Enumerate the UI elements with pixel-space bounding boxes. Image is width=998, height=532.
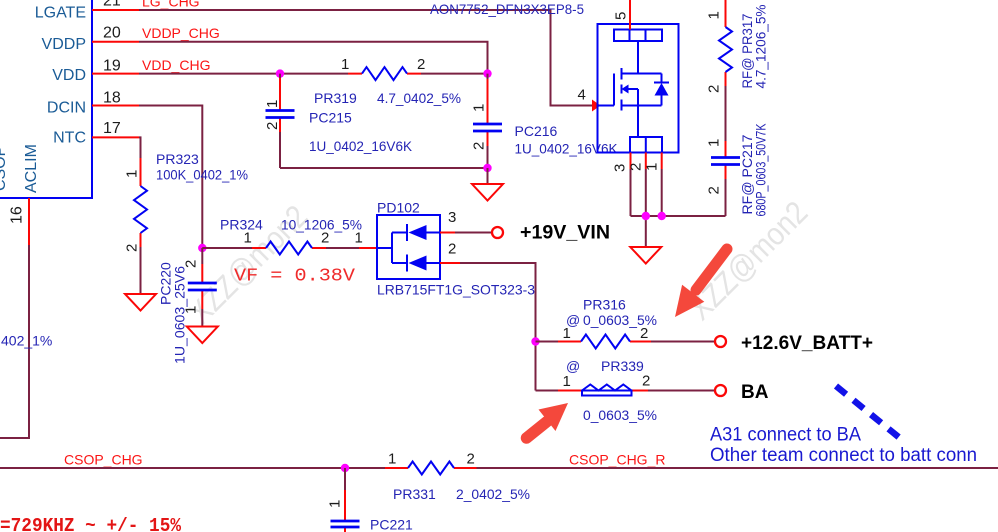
resistor PR323 100K_0402_1% bbox=[124, 137, 249, 252]
wire PR316 to +12.6V_BATT+ port bbox=[651, 341, 715, 343]
svg-text:1: 1 bbox=[264, 100, 281, 108]
svg-text:2: 2 bbox=[642, 373, 650, 390]
svg-text:2: 2 bbox=[448, 241, 456, 258]
svg-text:PR324: PR324 bbox=[220, 217, 263, 233]
svg-text:1: 1 bbox=[706, 11, 723, 19]
svg-text:PC221: PC221 bbox=[370, 517, 413, 532]
svg-text:20: 20 bbox=[103, 25, 121, 42]
svg-text:1: 1 bbox=[388, 451, 396, 468]
svg-text:2: 2 bbox=[471, 142, 488, 150]
svg-text:2: 2 bbox=[467, 451, 475, 468]
svg-text:DCIN: DCIN bbox=[47, 100, 86, 117]
svg-text:2_0402_5%: 2_0402_5% bbox=[456, 486, 530, 502]
wire PR323 to ground bbox=[140, 247, 142, 294]
svg-text:LGATE: LGATE bbox=[35, 5, 86, 22]
junction node PR316/PR339 bbox=[531, 337, 539, 345]
svg-text:1U_0402_16V6K: 1U_0402_16V6K bbox=[309, 138, 413, 154]
diode PD102 LRB715FT1G_SOT323-3 bbox=[355, 200, 536, 298]
port +19V_VIN bbox=[492, 223, 610, 244]
svg-text:402_1%: 402_1% bbox=[1, 333, 52, 349]
wire PC217 down to node bbox=[725, 179, 727, 216]
wire CSOP_CHG_R bbox=[477, 467, 998, 469]
svg-text:100K_0402_1%: 100K_0402_1% bbox=[156, 167, 248, 183]
IC charger body (partial, left edge) bbox=[0, 0, 92, 198]
junction node VDD/PC215 bbox=[276, 69, 284, 77]
svg-text:BA: BA bbox=[741, 382, 769, 403]
svg-text:680P_0603_50V7K: 680P_0603_50V7K bbox=[753, 123, 769, 217]
junction CSOP/PC221 bbox=[341, 464, 349, 472]
wire VDDP_CHG pin20 down to VDD node bbox=[139, 42, 488, 74]
pin 16 ACLIM bbox=[9, 144, 41, 245]
svg-text:PR316: PR316 bbox=[583, 297, 626, 313]
capacitor PC215 1U_0402_16V6K bbox=[264, 74, 413, 168]
resistor PR319 4.7_0402_5% bbox=[314, 56, 461, 106]
capacitor PC216 1U_0402_16V6K bbox=[471, 74, 619, 168]
svg-text:4: 4 bbox=[578, 87, 586, 104]
svg-text:PC216: PC216 bbox=[515, 123, 558, 139]
pin 20 VDDP bbox=[42, 25, 139, 54]
wire ground rail PC215/PC216 bbox=[280, 167, 488, 169]
svg-text:+12.6V_BATT+: +12.6V_BATT+ bbox=[741, 333, 873, 354]
svg-text:=729KHZ ~ +/- 15%: =729KHZ ~ +/- 15% bbox=[0, 515, 182, 532]
port BA bbox=[715, 382, 769, 403]
svg-text:AON7752_DFN3X3EP8-5: AON7752_DFN3X3EP8-5 bbox=[430, 1, 584, 17]
svg-text:PR319: PR319 bbox=[314, 90, 357, 106]
svg-text:4.7_0402_5%: 4.7_0402_5% bbox=[377, 90, 461, 106]
port +12.6V_BATT+ bbox=[715, 333, 873, 354]
svg-text:PR339: PR339 bbox=[601, 358, 644, 374]
svg-text:1: 1 bbox=[341, 56, 349, 73]
svg-text:LG_CHG: LG_CHG bbox=[142, 0, 200, 9]
svg-text:4.7_1206_5%: 4.7_1206_5% bbox=[753, 5, 769, 89]
resistor PR317 RF@ 4.7_1206_5% bbox=[706, 0, 769, 93]
ground under Q1 bbox=[630, 247, 661, 264]
svg-text:1: 1 bbox=[124, 170, 141, 178]
svg-text:19: 19 bbox=[103, 58, 121, 75]
wire VDD_CHG pin19 to PR319 bbox=[139, 73, 348, 75]
wire CSOP_CHG bbox=[0, 467, 385, 469]
wire ACLIM pin16 down and left bbox=[0, 245, 29, 438]
svg-text:ACLIM: ACLIM bbox=[23, 144, 40, 193]
svg-text:1: 1 bbox=[355, 230, 363, 247]
transistor Q1 AON7752_DFN3X3EP8-5 bbox=[430, 0, 679, 172]
svg-text:@: @ bbox=[566, 358, 580, 374]
resistor PR316 0_0603_5% bbox=[558, 297, 657, 349]
red arrow pointing to PR316 bbox=[675, 249, 727, 317]
svg-text:VDD: VDD bbox=[52, 67, 86, 84]
svg-text:3: 3 bbox=[448, 209, 456, 226]
svg-text:1: 1 bbox=[471, 104, 488, 112]
svg-text:@: @ bbox=[566, 312, 580, 328]
svg-text:+19V_VIN: +19V_VIN bbox=[520, 223, 610, 244]
pin 19 VDD bbox=[52, 58, 139, 85]
svg-text:2: 2 bbox=[124, 244, 141, 252]
capacitor PC221 bbox=[327, 468, 414, 532]
svg-text:VDD_CHG: VDD_CHG bbox=[142, 57, 210, 73]
svg-text:18: 18 bbox=[103, 90, 121, 107]
red arrow pointing to PR339 bbox=[527, 403, 569, 438]
svg-text:NTC: NTC bbox=[53, 130, 86, 147]
junction Q1 pin2 node bbox=[642, 212, 650, 220]
junction Q1 pin1 node bbox=[658, 212, 666, 220]
svg-text:17: 17 bbox=[103, 120, 121, 137]
svg-text:CSOP_CHG_R: CSOP_CHG_R bbox=[569, 451, 665, 467]
wire node to PR324 bbox=[202, 247, 252, 249]
wire PD102 pin2 down to battery branch bbox=[440, 263, 536, 391]
svg-text:PR331: PR331 bbox=[393, 486, 436, 502]
wire PR324 to PD102 bbox=[326, 247, 359, 249]
svg-text:1U_0603_25V6: 1U_0603_25V6 bbox=[172, 266, 188, 364]
svg-text:2: 2 bbox=[706, 186, 723, 194]
svg-text:Other team connect to batt con: Other team connect to batt conn bbox=[710, 445, 977, 466]
svg-text:PR323: PR323 bbox=[156, 151, 199, 167]
wire node to PR316 bbox=[536, 341, 559, 343]
ground under PC215/PC216 rail bbox=[472, 168, 503, 201]
pin 21 LGATE bbox=[35, 0, 139, 22]
svg-text:10_1206_5%: 10_1206_5% bbox=[281, 217, 362, 233]
svg-text:VDDP: VDDP bbox=[42, 36, 86, 53]
svg-text:PD102: PD102 bbox=[377, 200, 420, 216]
svg-text:A31 connect to BA: A31 connect to BA bbox=[710, 425, 861, 446]
svg-text:0_0603_5%: 0_0603_5% bbox=[583, 407, 657, 423]
capacitor PC220 1U_0603_25V6 bbox=[158, 248, 217, 364]
capacitor PC217 RF@ 680P_0603_50V7K bbox=[706, 123, 769, 217]
svg-text:1: 1 bbox=[327, 500, 344, 508]
svg-text:21: 21 bbox=[103, 0, 121, 10]
resistor PR324 10_1206_5% bbox=[220, 217, 362, 255]
svg-text:PC215: PC215 bbox=[309, 110, 352, 126]
svg-text:CSOP: CSOP bbox=[0, 146, 9, 191]
wire Q1 pins 1/2/3 to node bbox=[631, 169, 726, 247]
svg-text:1: 1 bbox=[563, 373, 571, 390]
wire PR317 to PC217 bbox=[725, 86, 727, 141]
svg-text:16: 16 bbox=[9, 206, 26, 224]
blue dashed pointer line bbox=[836, 386, 901, 439]
svg-text:VDDP_CHG: VDDP_CHG bbox=[142, 25, 220, 41]
wire DCIN pin18 down to node bbox=[139, 106, 202, 249]
resistor PR331 2_0402_5% bbox=[385, 451, 530, 503]
pin 17 NTC bbox=[53, 120, 139, 147]
wire PD102 pin3 to +19V_VIN port bbox=[440, 232, 492, 234]
ground under PC220 bbox=[187, 327, 218, 344]
svg-text:CSOP_CHG: CSOP_CHG bbox=[64, 451, 143, 467]
wire node to PR339 bbox=[536, 390, 559, 392]
junction node VDD/PC216 bbox=[483, 69, 491, 77]
svg-text:1U_0402_16V6K: 1U_0402_16V6K bbox=[515, 141, 619, 157]
junction rail/ground bbox=[483, 164, 491, 172]
resistor PR339 0_0603_5% (boxed zigzag) bbox=[558, 358, 657, 423]
svg-text:2: 2 bbox=[706, 85, 723, 93]
pin 18 DCIN bbox=[47, 90, 139, 117]
wire LG_CHG pin21 to Q1 gate bbox=[139, 10, 592, 106]
wire PR339 to BA port bbox=[648, 390, 715, 392]
svg-text:2: 2 bbox=[264, 122, 281, 130]
ground under PR323 bbox=[125, 294, 156, 311]
svg-text:5: 5 bbox=[613, 12, 630, 20]
svg-text:LRB715FT1G_SOT323-3: LRB715FT1G_SOT323-3 bbox=[377, 282, 535, 298]
svg-text:2: 2 bbox=[417, 56, 425, 73]
svg-text:3: 3 bbox=[612, 164, 629, 172]
port arrow into Q1 pin 4 bbox=[592, 100, 601, 112]
wire PR319 pin2 to PC216 node bbox=[421, 73, 488, 75]
junction node DCIN/PR324/PC220 bbox=[198, 244, 206, 252]
svg-text:VF = 0.38V: VF = 0.38V bbox=[234, 267, 355, 287]
svg-text:0_0603_5%: 0_0603_5% bbox=[583, 312, 657, 328]
svg-text:1: 1 bbox=[706, 139, 723, 147]
